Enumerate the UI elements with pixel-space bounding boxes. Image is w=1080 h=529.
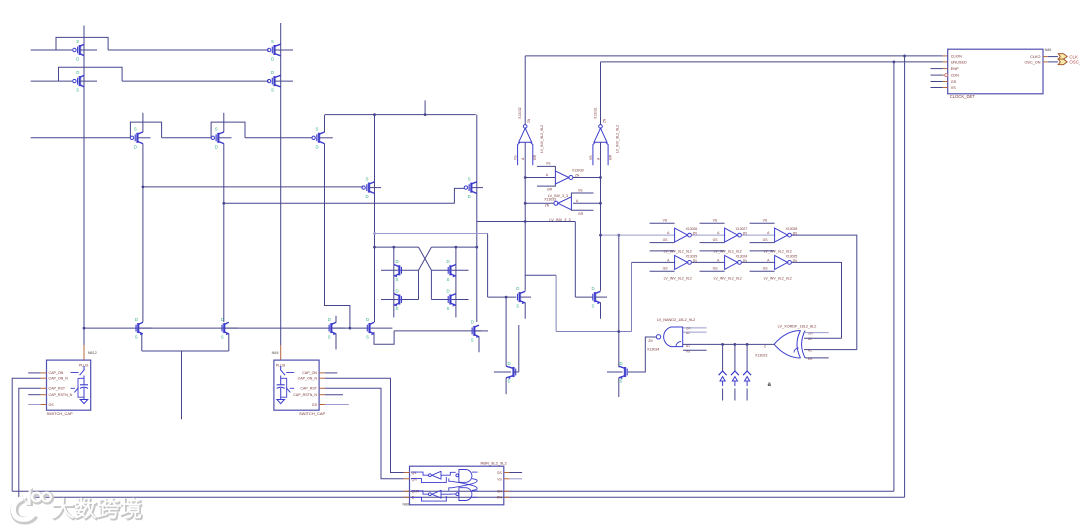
wire NAND A2 stub [683, 331, 707, 333]
svg-text:VS: VS [497, 477, 502, 481]
svg-text:CAP_RST: CAP_RST [300, 387, 317, 391]
svg-text:CAP_RST: CAP_RST [49, 387, 66, 391]
pmos PM-L [362, 176, 381, 199]
wire small NMOS-R source stub [618, 378, 620, 397]
nmos QL2 [394, 288, 402, 311]
svg-text:CAP_ON_N: CAP_ON_N [298, 377, 318, 381]
svg-text:GS: GS [763, 238, 769, 242]
wire row1 link [742, 234, 775, 236]
svg-text:GS: GS [663, 267, 669, 271]
svg-text:QN: QN [412, 477, 418, 481]
wire X13032 branch to x556 [525, 274, 556, 276]
svg-text:ZN: ZN [648, 339, 653, 343]
wire small NMOS-L source stub [505, 378, 507, 394]
wire XOR GR stub [803, 332, 829, 334]
svg-text:GR: GR [608, 154, 612, 160]
svg-text:D: D [316, 144, 319, 149]
svg-text:X13029: X13029 [686, 254, 698, 258]
antenna/noconn symbol [743, 344, 751, 400]
svg-text:OSC_O: OSC_O [1069, 60, 1080, 65]
wire CAP_ON_N left riser [12, 378, 40, 491]
wire NMOS-TL gate riser [487, 234, 489, 298]
svg-text:S: S [396, 306, 399, 311]
svg-text:S: S [316, 127, 319, 132]
wire T5 gate row [31, 137, 130, 139]
svg-text:N86: N86 [1045, 48, 1052, 52]
svg-text:S: S [447, 306, 450, 311]
svg-text:QS: QS [412, 471, 418, 475]
wire T6 bypass loop [211, 122, 245, 138]
nmos Td [366, 317, 374, 340]
svg-text:S: S [76, 88, 79, 93]
wire quad right rail [431, 246, 476, 248]
port OSC_ON [1058, 59, 1067, 65]
wire row1 output to XOR A1 riser [792, 235, 857, 350]
nmos Tc [328, 317, 345, 340]
svg-text:GR: GR [547, 188, 553, 192]
inverter X13032 [514, 107, 545, 165]
wire RBN Q pin stub [404, 496, 410, 498]
pmos T2 [73, 70, 97, 93]
wire UNUSED net vertical right [893, 62, 895, 491]
svg-text:D: D [396, 259, 399, 264]
wire row1 link [692, 234, 725, 236]
wire T3/T4 stack vertical down to switch-cap2 [280, 23, 282, 345]
pmos PM-R [464, 176, 483, 199]
svg-text:S: S [366, 335, 369, 340]
wire quad left column [393, 247, 395, 317]
wire RBN GS stub [504, 472, 510, 474]
nmos SR [619, 361, 627, 384]
wire XOR ER stub [805, 357, 829, 359]
wire cross diagonal B [419, 247, 432, 270]
svg-text:S: S [328, 335, 331, 340]
watermark text 大数跨境 (traced outlines) [54, 499, 74, 519]
svg-text:S: S [471, 338, 474, 343]
wire NMOS-TL gate [488, 296, 517, 298]
svg-text:ZN: ZN [545, 204, 550, 208]
wire lavender bottom link [556, 331, 631, 333]
wire UNUSED rail [601, 61, 943, 63]
svg-text:CDN: CDN [951, 74, 959, 78]
wire quad gate link right [430, 270, 432, 299]
svg-text:VS: VS [546, 162, 551, 166]
wire quad left rail [375, 246, 419, 248]
wire cap1 GS stub [28, 404, 40, 406]
svg-text:D: D [447, 288, 450, 293]
wire ENP stub [931, 68, 943, 70]
svg-text:GS: GS [49, 403, 55, 407]
svg-text:D: D [366, 317, 369, 322]
svg-text:GR: GR [578, 212, 584, 216]
inverter X13025 [750, 251, 798, 281]
svg-text:D: D [221, 317, 224, 322]
wire T1 gate [31, 49, 72, 51]
block CLOCK_DET [948, 49, 1043, 99]
svg-text:D: D [471, 320, 474, 325]
wire PLUS pin stub block1 [83, 345, 85, 360]
wire cap2 CAP_RSTN_N stub [319, 394, 325, 396]
svg-text:LV_INV_9L2_9L2: LV_INV_9L2_9L2 [540, 125, 544, 153]
wire T7 drain vertical with jog to gate row [325, 144, 350, 329]
wire quad gate link left [418, 270, 420, 299]
svg-text:N84: N84 [272, 351, 279, 355]
wire X13033 output [525, 202, 553, 204]
nmos Tb [221, 317, 238, 340]
wire net B: PM-R drain to NMOS-TR gate [477, 221, 576, 223]
svg-text:CAP_RSTN_N: CAP_RSTN_N [293, 393, 317, 397]
svg-text:D: D [508, 361, 511, 366]
wire row2 link [692, 261, 725, 263]
antenna/noconn symbol [731, 344, 739, 400]
nmos TL [516, 286, 531, 309]
wire NAND A1 to XOR output [683, 343, 774, 345]
svg-text:VS: VS [663, 219, 668, 223]
svg-text:D: D [135, 317, 138, 322]
wire Tc source stub [335, 334, 337, 350]
svg-text:D: D [366, 194, 369, 199]
svg-text:ZN: ZN [602, 118, 606, 123]
wire small NMOS-L gate stub [494, 371, 511, 373]
wire inv-row2 input riser [631, 262, 633, 331]
svg-text:CAP_ON: CAP_ON [49, 371, 64, 375]
svg-text:CAP_ON_N: CAP_ON_N [49, 377, 69, 381]
wire XOR A1 [804, 349, 857, 351]
pmos T7 [312, 127, 333, 150]
svg-text:D: D [271, 57, 274, 62]
wire VS stub [931, 87, 943, 89]
svg-text:X13032: X13032 [518, 107, 522, 119]
svg-text:CLKO: CLKO [1030, 55, 1040, 59]
wire RBN RN pin stub [504, 496, 510, 498]
svg-text:D: D [516, 286, 519, 291]
svg-text:S: S [76, 39, 79, 44]
wire vertical x84 T1/T2 stack down to switch-cap1 [83, 26, 85, 346]
wire Te source stub [478, 336, 480, 352]
wire RBN SN pin stub [504, 490, 510, 492]
svg-text:VS: VS [951, 86, 957, 90]
svg-text:ZN: ZN [527, 118, 531, 123]
wire bottom rail RN/Q [19, 496, 905, 498]
svg-text:S: S [134, 127, 137, 132]
wire T6 source riser [223, 113, 225, 132]
wire cap1 CAP_ON_N pin stub [41, 377, 47, 379]
wire CDN stub with bubble [931, 74, 943, 76]
svg-text:VS: VS [514, 155, 518, 160]
svg-text:D: D [134, 144, 137, 149]
wire cap2 CAP_RST to RBN QN [319, 387, 325, 389]
nmos QR2 [447, 288, 456, 311]
svg-text:CAP_RSTN_N: CAP_RSTN_N [49, 393, 73, 397]
wire CLKO out [1043, 56, 1048, 58]
inverter X13030 [537, 162, 584, 192]
wire RBN QS pin stub [404, 472, 410, 474]
wire RBN QN pin stub [404, 478, 410, 480]
wire NAND output to small NMOS-R [628, 337, 656, 372]
svg-text:LV_INV_9L2_9L2: LV_INV_9L2_9L2 [615, 125, 619, 153]
wire cap2 GS stub [319, 404, 325, 406]
wire gate net from T6 drain to PM-R [224, 188, 464, 203]
wire bottom row right segment [394, 330, 481, 332]
svg-text:VS: VS [713, 219, 718, 223]
wire Ta source down [141, 334, 143, 352]
pmos T5 [130, 127, 150, 150]
wire quad right gate row2 [431, 299, 468, 301]
svg-text:ZN: ZN [575, 174, 580, 178]
wire quad left gate row2 [381, 299, 419, 301]
svg-text:GS: GS [763, 267, 769, 271]
wire branch x618.8 down to small NMOS-R drain [618, 235, 620, 367]
svg-text:X13023: X13023 [755, 354, 767, 358]
svg-text:X13030: X13030 [572, 169, 584, 173]
svg-text:GS: GS [713, 267, 719, 271]
svg-text:D: D [76, 70, 79, 75]
wire T1 source bypass loop [56, 37, 108, 50]
wire CLKIN rail pin stub [943, 55, 948, 57]
wire row2 link [742, 261, 775, 263]
port CLK [1058, 54, 1067, 60]
wire tail vertical [181, 351, 183, 419]
wire T2 bypass loop [59, 67, 123, 81]
wire x506 gate branch down to small NMOS-L drain [505, 297, 507, 366]
wire CLKIN rail [525, 55, 943, 57]
svg-text:X13024: X13024 [736, 254, 748, 258]
svg-text:UNUSED: UNUSED [951, 60, 967, 64]
pmos T3 [267, 39, 293, 62]
wire X13030 output [573, 177, 601, 179]
wire T2 gate [31, 80, 72, 82]
inverter X13029 [650, 251, 698, 281]
wire RBN QNR pin stub [404, 490, 410, 492]
svg-text:GS: GS [312, 403, 318, 407]
wire inv row1 input [601, 234, 675, 236]
svg-text:VS: VS [578, 189, 583, 193]
svg-text:D: D [447, 259, 450, 264]
antenna/noconn symbol [719, 344, 727, 400]
svg-text:OSC_ON: OSC_ON [1024, 60, 1040, 64]
svg-text:D: D [328, 317, 331, 322]
wire bottom rail SN/QNR [12, 490, 894, 492]
wire X13030 input [525, 177, 555, 179]
svg-text:D: D [396, 288, 399, 293]
wire X13031 input leg down [600, 142, 602, 291]
svg-text:RBN_9L2_9L2: RBN_9L2_9L2 [481, 461, 508, 466]
svg-text:S: S [271, 88, 274, 93]
svg-text:GS: GS [497, 471, 503, 475]
svg-text:S: S [215, 127, 218, 132]
wire T6 drain vertical [223, 144, 225, 323]
svg-text:D: D [76, 57, 79, 62]
wire Td source loop [374, 331, 394, 344]
svg-text:QNR: QNR [412, 489, 420, 493]
svg-text:X13034: X13034 [647, 348, 659, 352]
wire cap2 CAP_ON stub [319, 372, 325, 374]
svg-text:CLOCK_DET: CLOCK_DET [950, 94, 976, 99]
pmos T6 [211, 127, 231, 150]
wire X13032 output up [524, 56, 526, 125]
svg-text:SN: SN [497, 489, 502, 493]
svg-text:CAP_ON: CAP_ON [302, 371, 317, 375]
svg-text:S: S [620, 379, 623, 384]
svg-text:RN: RN [497, 496, 502, 500]
watermark logo [13, 493, 141, 521]
wire bottom gate row [84, 327, 392, 329]
svg-text:S: S [468, 176, 471, 181]
pmos T4 [267, 70, 293, 93]
svg-text:SWITCH_CAP: SWITCH_CAP [47, 411, 74, 416]
nmos QL1 [394, 259, 402, 282]
wire T7 source riser [324, 115, 326, 133]
wire cap1 CAP_RST pin stub [41, 387, 47, 389]
svg-text:S: S [508, 379, 511, 384]
wire NAND GR stub [683, 327, 707, 329]
wire small NMOS-R gate stub [607, 371, 623, 373]
pmos T1 [73, 39, 97, 62]
wire NMOS-TR gate riser [574, 222, 576, 298]
wire tail join [142, 350, 229, 352]
inverter X13033 [544, 189, 593, 217]
svg-text:D: D [215, 144, 218, 149]
wire CAP_RST left riser [19, 388, 41, 497]
wire PLUS pin stub block2 [280, 345, 282, 360]
svg-text:D: D [620, 361, 623, 366]
wire X13031 output up [600, 62, 602, 125]
wire NAND VS stub [683, 349, 707, 351]
wire row2 input [632, 261, 675, 263]
svg-text:SWITCH_CAP: SWITCH_CAP [299, 411, 326, 416]
svg-text:S: S [366, 176, 369, 181]
svg-text:A2: A2 [686, 331, 690, 335]
wire quad left gate row1 [381, 269, 419, 271]
svg-text:S: S [396, 277, 399, 282]
wire CLKIN net vertical right [904, 56, 906, 497]
svg-text:S: S [592, 304, 595, 309]
block RBN_9L2_9L2 [403, 461, 508, 507]
svg-text:GR: GR [533, 154, 537, 160]
svg-text:LV_XORDF_18L2_8L2: LV_XORDF_18L2_8L2 [778, 325, 817, 329]
wire quad right gate row1 [431, 269, 468, 271]
wire net A lavender: PM-L drain to NMOS-TL gate [375, 233, 488, 235]
nmos QR1 [447, 259, 456, 282]
svg-text:D: D [271, 70, 274, 75]
wire rail stub up [424, 100, 426, 114]
svg-text:S: S [135, 335, 138, 340]
svg-text:S: S [516, 304, 519, 309]
svg-text:D: D [468, 194, 471, 199]
inverter X13027 [700, 219, 748, 254]
wire quad right column [455, 247, 457, 317]
svg-text:LV_INV_9L2_9L2: LV_INV_9L2_9L2 [664, 277, 692, 281]
inverter X13028 [750, 219, 798, 254]
wire row2 output to XOR A2 riser [792, 262, 842, 338]
wire X13033 input [573, 202, 601, 204]
wire NMOS-TR source stub [600, 303, 602, 319]
wire Tc drain stub [335, 316, 337, 323]
wire GS stub [931, 81, 943, 83]
svg-text:X13031: X13031 [593, 107, 597, 119]
svg-text:LV_INV_9L2_9L2: LV_INV_9L2_9L2 [764, 277, 792, 281]
wire T1 row to T3 [108, 49, 269, 51]
wire x556 down [555, 275, 557, 331]
svg-text:VS: VS [589, 155, 593, 160]
wire Tb source down [228, 334, 230, 352]
svg-text:N88: N88 [403, 503, 410, 507]
block SWITCH_CAP 2 [274, 360, 326, 416]
svg-text:LV_INV_9L2_9L2: LV_INV_9L2_9L2 [714, 277, 742, 281]
block SWITCH_CAP 1 [47, 360, 91, 416]
svg-text:GS: GS [663, 238, 669, 242]
wire T5-T6 [162, 137, 212, 139]
wire OSC_ON out [1043, 61, 1048, 63]
wire RBN VS stub [504, 478, 510, 480]
wire cap1 CAP_RSTN_N stub [28, 394, 40, 396]
wire cap1 CAP_ON stub [28, 372, 40, 374]
xor gate X13023 [755, 325, 816, 362]
svg-text:GS: GS [713, 238, 719, 242]
svg-text:VS: VS [763, 219, 768, 223]
wire UNUSED rail pin stub [943, 61, 948, 63]
wire T5 source riser [142, 113, 144, 132]
inverter X13024 [700, 251, 748, 281]
wire T6-T7 [245, 137, 313, 139]
wire X13032 input leg down [524, 142, 526, 291]
svg-text:S: S [447, 277, 450, 282]
wire small NMOS-L bulk riser [518, 325, 520, 372]
wire T2 row to T4 [122, 80, 269, 82]
svg-text:D: D [592, 286, 595, 291]
svg-text:X13027: X13027 [736, 227, 748, 231]
wire T5 drain vertical [142, 144, 144, 323]
svg-text:GS: GS [951, 80, 957, 84]
svg-text:S: S [221, 335, 224, 340]
svg-text:X13033: X13033 [544, 198, 556, 202]
wire PM-L source/drain vertical x374.5 [374, 115, 376, 322]
svg-text:LV_NAND2_18L2_9L2: LV_NAND2_18L2_9L2 [657, 318, 695, 322]
wire cap2 CAP_ON_N to RBN QS [319, 377, 325, 379]
svg-text:CLK: CLK [1069, 54, 1078, 59]
wire cross diagonal A [419, 247, 432, 270]
nmos SL [506, 361, 519, 384]
wire NMOS-TR gate [575, 296, 592, 298]
svg-text:N812: N812 [88, 351, 97, 355]
nmos Ta [135, 317, 152, 340]
inverter X13031 [589, 107, 620, 165]
nmos Te [471, 320, 488, 343]
svg-text:ENP: ENP [951, 67, 959, 71]
wire XOR A2 [804, 337, 842, 339]
svg-text:X13026: X13026 [686, 227, 698, 231]
wire T5 bypass loop [130, 122, 161, 138]
svg-text:X13028: X13028 [786, 227, 798, 231]
wire PM-R source/drain vertical x476.8 [476, 115, 478, 322]
wire NMOS-TL source stub [524, 303, 526, 319]
svg-text:X13025: X13025 [786, 254, 798, 258]
wire gate net from T5 drain to PM-L [143, 186, 363, 188]
svg-text:Z: Z [764, 345, 766, 349]
svg-text:S: S [271, 39, 274, 44]
nmos TR [592, 286, 608, 309]
svg-text:CLKIN: CLKIN [951, 54, 962, 58]
nand gate X13034 [647, 318, 695, 353]
wire VS rail y114.6 [325, 114, 476, 116]
inverter X13026 [650, 219, 698, 254]
